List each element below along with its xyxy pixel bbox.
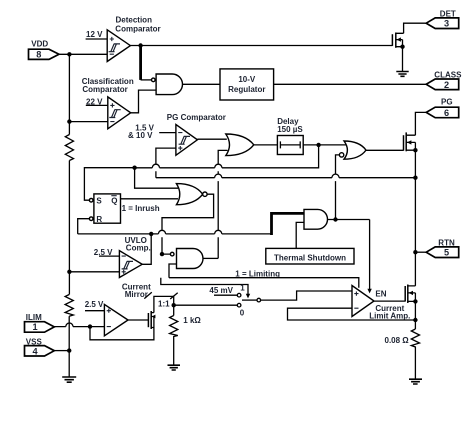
svg-text:Thermal Shutdown: Thermal Shutdown — [274, 254, 346, 263]
node VDD junction — [67, 52, 71, 56]
wire delay output down to inrush rail — [135, 145, 319, 168]
ground VSS — [62, 377, 76, 382]
wire UVLO minus input — [99, 255, 119, 257]
wire latch R input from UVLO rail — [78, 219, 90, 234]
op-amp detection comparator — [107, 15, 160, 61]
wire AND lower input from thermal shutdown — [296, 222, 304, 248]
node AND output junction — [333, 217, 337, 221]
svg-text:0: 0 — [240, 308, 245, 317]
wire latch Q output to NOR lower input — [121, 198, 179, 200]
svg-text:5: 5 — [444, 247, 449, 257]
wire AND output up to OR PG input — [336, 155, 340, 220]
block Thermal Shutdown — [266, 248, 354, 264]
pin CLASS 2 — [426, 71, 462, 91]
wire PG drain to pin — [415, 112, 426, 135]
node mirror output junction — [172, 303, 176, 307]
op-amp UVLO comparator — [119, 236, 150, 278]
wire VSS pin to bus — [54, 350, 69, 352]
hop UVLO rail over NAND limiting riser — [215, 230, 222, 234]
node classification input junction — [67, 119, 71, 123]
svg-text:8: 8 — [36, 49, 41, 59]
wire NOR output to NAND limiting input — [162, 194, 214, 254]
block 10-V Regulator — [220, 69, 274, 100]
svg-text:1: 1 — [32, 322, 37, 332]
pin RTN 5 — [426, 238, 459, 257]
svg-text:12 V: 12 V — [86, 30, 103, 39]
svg-text:CLASS: CLASS — [434, 71, 462, 80]
svg-text:4: 4 — [32, 346, 38, 356]
svg-text:VDD: VDD — [31, 40, 48, 49]
node detection output junction — [138, 43, 142, 47]
gate AND fault — [304, 209, 328, 229]
pin ILIM 1 — [25, 313, 55, 332]
wire limiting control line — [169, 278, 359, 288]
svg-text:RTN: RTN — [438, 238, 455, 247]
svg-text:1 = Limiting: 1 = Limiting — [235, 269, 280, 278]
switch limit select — [237, 293, 260, 307]
mirror ratio ticks — [144, 292, 177, 299]
svg-text:2: 2 — [444, 80, 449, 90]
wire DET drain to pin — [404, 23, 427, 33]
wire rail to NOR upper input — [135, 168, 178, 189]
rail PG sense feedback — [156, 177, 416, 179]
wire rail to latch S input — [84, 168, 134, 201]
svg-text:S: S — [96, 196, 102, 205]
latch S-R inrush — [89, 194, 120, 224]
node sense rail junction — [413, 176, 417, 180]
svg-text:2.5 V: 2.5 V — [85, 300, 104, 309]
transistor PG indicator — [404, 132, 416, 151]
gate NAND class enable — [152, 74, 183, 95]
svg-text:150 µS: 150 µS — [277, 125, 303, 134]
wire UVLO output up to rail — [142, 234, 151, 264]
svg-text:Limit Amp.: Limit Amp. — [369, 311, 410, 320]
transistor current mirror — [148, 311, 155, 329]
wire mirror amp plus input — [85, 310, 104, 312]
wire UVLO plus input — [69, 271, 119, 273]
node DET source junction — [400, 45, 404, 49]
resistor upper divider — [65, 135, 73, 161]
wire detection comparator output — [130, 45, 392, 47]
wire OR output to delay — [254, 144, 278, 146]
svg-text:PG Comparator: PG Comparator — [167, 113, 226, 122]
wire delay output to OR — [303, 144, 346, 146]
wire thick riser to AND — [270, 213, 304, 235]
node PG source junction — [413, 148, 417, 152]
wire PG comparator output to OR — [197, 138, 226, 140]
wire NAND output to regulator — [183, 83, 221, 85]
pin VDD 8 — [29, 40, 60, 60]
wire amp output to pass transistor gate — [374, 300, 405, 302]
wire mirror source feedback — [90, 327, 154, 340]
wire classification minus input — [69, 121, 107, 123]
wire PG comparator plus from rail — [156, 148, 176, 178]
wire switch common to amp plus — [261, 291, 352, 300]
node delay output junction — [316, 143, 320, 147]
wire RTN pin stub — [415, 251, 426, 253]
wire switch control branch — [161, 278, 248, 295]
op-amp classification comparator — [82, 77, 134, 129]
svg-text:3: 3 — [444, 18, 449, 28]
wire mirror drain loop 1:1 — [154, 296, 174, 315]
wire OR output to PG transistor gate — [366, 149, 404, 151]
wire EN from AND output — [369, 220, 371, 290]
pin DET 3 — [426, 10, 459, 29]
hop ILIM wire over VDD bus — [66, 323, 73, 327]
svg-text:Comp.: Comp. — [126, 243, 151, 252]
svg-text:ILIM: ILIM — [26, 313, 42, 322]
wire OR lower input from NAND limiting — [218, 150, 227, 258]
svg-text:R: R — [96, 215, 102, 224]
svg-text:45 mV: 45 mV — [209, 286, 233, 295]
op-amp current mirror amp — [104, 282, 151, 335]
wire 12V reference input — [86, 38, 108, 40]
node UVLO input junction — [67, 270, 71, 274]
wire AND output — [328, 219, 370, 221]
ground sense resistor — [409, 379, 422, 384]
node pass source junction — [413, 299, 417, 303]
wire mirror node to switch contact 0 — [174, 304, 238, 306]
svg-text:Q: Q — [111, 196, 117, 205]
svg-text:& 10 V: & 10 V — [128, 131, 153, 140]
gate OR power good — [226, 134, 254, 156]
svg-text:PG: PG — [441, 98, 453, 107]
svg-text:1: 1 — [240, 284, 245, 293]
op-amp current limit amp — [352, 286, 410, 321]
hop inrush rail over PG plus drop — [152, 164, 159, 168]
node inrush rail junction — [132, 166, 136, 170]
node RTN pin junction — [413, 250, 417, 254]
transistor DET pulldown — [392, 33, 403, 48]
wire classification output to NAND — [131, 90, 156, 113]
hop sense rail over AND riser — [332, 174, 339, 178]
pin VSS 4 — [25, 337, 55, 356]
wire amp minus feedback — [288, 308, 416, 320]
wire 22V reference input — [86, 104, 108, 106]
svg-text:Comparator: Comparator — [115, 24, 160, 33]
wire RTN bus vertical — [414, 150, 416, 286]
hop inrush rail over NAND limiting riser — [215, 164, 222, 168]
svg-text:1 kΩ: 1 kΩ — [183, 316, 201, 325]
wire NAND limiting lower input — [169, 264, 177, 278]
wire NAND limiting output riser — [203, 257, 218, 259]
svg-text:0.08 Ω: 0.08 Ω — [385, 336, 410, 345]
svg-text:Comparator: Comparator — [82, 85, 127, 94]
svg-text:1 = Inrush: 1 = Inrush — [122, 204, 160, 213]
op-amp PG comparator — [167, 113, 226, 156]
wire ILIM to mirror amp minus — [54, 326, 104, 328]
wire to NAND class inverted input — [141, 79, 152, 81]
rail UVLO output — [78, 233, 272, 235]
gate NOR inrush — [176, 184, 207, 205]
wire regulator to CLASS pin — [274, 83, 427, 85]
arrow EN enable — [367, 289, 371, 294]
node UVLO output junction — [149, 232, 153, 236]
gate OR PG drive — [339, 141, 366, 159]
svg-text:1:1: 1:1 — [158, 300, 170, 309]
wire thick detection to NAND — [139, 46, 142, 80]
pin PG 6 — [426, 98, 459, 118]
arrow switch control — [246, 294, 250, 299]
svg-text:10-V: 10-V — [238, 75, 256, 84]
block delay 150us — [277, 117, 303, 155]
svg-text:6: 6 — [444, 108, 449, 118]
wire source to sense node — [414, 301, 416, 329]
svg-text:DET: DET — [440, 10, 456, 19]
node VSS junction — [67, 348, 71, 352]
wire mirror amp output to gate — [128, 319, 148, 321]
wire PG comparator minus input — [159, 132, 176, 134]
hop UVLO rail over NOR drop — [158, 230, 165, 234]
hop sense rail over NAND limiting riser — [215, 174, 222, 178]
wire DET source to ground — [402, 47, 404, 72]
ground 1 kOhm — [168, 365, 181, 370]
ground DET — [396, 72, 408, 77]
resistor 0.08 Ohm sense — [411, 329, 419, 379]
wire VDD vertical bus upper — [68, 54, 70, 377]
svg-text:EN: EN — [375, 290, 386, 299]
gate NAND limiting — [170, 249, 203, 269]
node mirror feedback junction — [88, 324, 92, 328]
svg-text:VSS: VSS — [26, 337, 43, 346]
resistor 1 kOhm — [170, 316, 178, 366]
transistor output pass — [405, 285, 415, 304]
svg-text:Regulator: Regulator — [228, 85, 265, 94]
node NOR path elbow — [160, 252, 164, 256]
wire 45mV to switch contact 1 — [214, 294, 237, 296]
svg-text:Detection: Detection — [116, 15, 153, 24]
resistor lower divider — [65, 295, 73, 317]
wire VDD pin to detection comparator — [59, 53, 107, 55]
node sense feedback junction — [413, 318, 417, 322]
